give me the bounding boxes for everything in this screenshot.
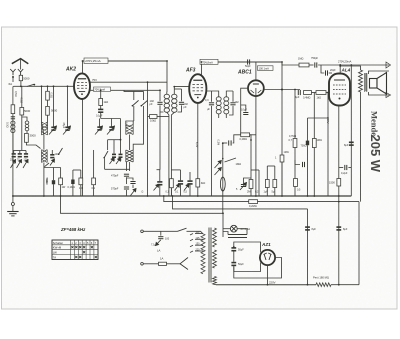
trimmer arrow t3 [116, 158, 121, 164]
band switch arrow b [17, 160, 22, 169]
speaker [370, 73, 387, 95]
v281 from top [281, 62, 283, 196]
cap det var [241, 185, 246, 187]
wire CV2 feed [67, 86, 69, 127]
r01f bot [72, 184, 74, 196]
tube AZ1 [260, 250, 275, 265]
variable tuning cap CV2 [65, 127, 69, 131]
resistor 1M right [312, 139, 316, 148]
mains bottom wire [143, 263, 158, 265]
anode supply wire 270V [83, 60, 168, 62]
resistor 150 [79, 178, 83, 185]
tap stub 110 [190, 234, 193, 236]
IF2 secondary coil [224, 97, 229, 114]
rail L1 [61, 196, 224, 213]
AF3 anode wire [202, 61, 283, 63]
table X row4 b [79, 256, 81, 258]
volume pot body [222, 150, 224, 214]
az1 left bottom [234, 263, 261, 272]
AK2 cathode down [82, 99, 84, 196]
wire mid v1 [133, 91, 135, 100]
r1mdet bot [266, 188, 268, 197]
power transformer secondary fil [213, 277, 217, 285]
chain mid [309, 64, 314, 66]
chain drop [327, 93, 329, 197]
heater bar left [223, 232, 228, 235]
switch S2a [132, 100, 138, 106]
coupling coil top [22, 117, 27, 121]
resistor 1k AK2 [99, 99, 103, 106]
IF2 capa leads [211, 91, 213, 102]
resistor 1M agc [280, 155, 284, 162]
mixer top leads [126, 121, 134, 125]
IF2 capb bot [229, 106, 233, 115]
mixer net drop b [113, 140, 115, 154]
v351 long [350, 65, 352, 196]
mixer net wire [108, 139, 121, 141]
cluster feed wire [44, 167, 61, 169]
avc wire [223, 142, 227, 144]
resistor 2MOhm [249, 180, 253, 189]
terminal 6A plug Y [10, 69, 15, 75]
capacitor 8uF a [305, 226, 310, 230]
trimmer cap 30 [112, 154, 116, 158]
IF1 sec top lead [173, 92, 175, 94]
capacitor 140 band [50, 154, 54, 158]
caf32 top jog [171, 169, 180, 171]
capacitor 120pF band [24, 153, 28, 157]
junction 340 [339, 64, 341, 66]
switch S1 contact dot [33, 84, 35, 86]
table X row4 a [75, 256, 77, 258]
AF3 anode up [201, 62, 203, 75]
r2m leads [250, 140, 252, 180]
ground lead [12, 206, 14, 212]
IF1 tuning cap a [157, 102, 162, 104]
AK2 75V wire [90, 81, 167, 83]
mixer coil upper winding [126, 125, 133, 135]
IF2 pri bottom [218, 114, 220, 118]
grid bus left corner [13, 86, 14, 121]
r07 leads [294, 90, 296, 139]
drop 307 8uF [307, 209, 309, 285]
ABC1 grid left wire [241, 88, 248, 92]
pot dot [222, 158, 224, 160]
switch S2b dot [141, 105, 143, 107]
tap 150 [195, 244, 203, 246]
tap 125 [195, 238, 203, 240]
trimmer cap 40 [119, 154, 123, 158]
IF2 sec bottom [225, 114, 227, 118]
var cap CV3b feed [111, 119, 113, 127]
IF1 pri top lead [166, 92, 168, 94]
IF1 pri bottom [167, 112, 169, 196]
otp top [340, 66, 360, 70]
r1k to cap [100, 106, 102, 110]
r150 bot [80, 185, 82, 196]
r50k bot [53, 184, 55, 196]
cap to res link [233, 135, 241, 143]
r01m leads [93, 150, 95, 178]
net drop to trimmers [120, 119, 122, 140]
ground symbol [7, 212, 18, 216]
det res right [250, 135, 251, 140]
boxed label 270V 25mA [84, 58, 108, 63]
cap470 to pad [126, 177, 128, 184]
resistor Perue 180 [316, 283, 331, 287]
mains top wire2 [187, 231, 204, 234]
mains switch [178, 228, 187, 231]
caf32 [180, 170, 182, 181]
capacitor 4uF coupling [298, 90, 300, 95]
junction dot 351 [350, 64, 352, 66]
volume pot ellipse [220, 177, 225, 191]
chain to grid [326, 92, 330, 94]
chain drop branch [308, 117, 329, 119]
band cap leads [13, 151, 15, 154]
band cap leads b [19, 151, 21, 154]
switch S3 dot [103, 157, 105, 159]
caf3 bot [159, 185, 161, 196]
IF1 cap a bot [160, 105, 164, 112]
rdet2 top [251, 169, 259, 171]
IF1 sec top to AF3 grid [174, 87, 189, 92]
capacitor 8uF c [349, 142, 354, 146]
band table frame [52, 240, 98, 260]
mixer caps bottom [113, 158, 115, 162]
junction dot 281 [281, 89, 283, 91]
table X row2 col 80.2 [79, 246, 81, 248]
band caps tee [21, 144, 23, 151]
resistor 3000 osc [25, 134, 29, 143]
mains cap lead [160, 231, 162, 235]
tap stub 125 [190, 239, 193, 241]
left column v1 cont [21, 115, 23, 144]
resistor 0,2MOhm top [241, 133, 250, 137]
IF2 cap a [209, 103, 214, 105]
az1 caps rail [233, 252, 235, 262]
caf33 [189, 172, 191, 180]
switch S1 on grid bus [27, 84, 35, 86]
coupling coil bottom [26, 131, 28, 133]
variable tuning cap CV1 [51, 127, 55, 131]
antenna A [12, 59, 29, 64]
c20 to grid [329, 72, 332, 74]
band table col lines [70, 240, 72, 260]
resistor 0,1M b [92, 178, 96, 185]
output transformer primary [359, 70, 363, 92]
terminal 6A dot [12, 76, 14, 78]
rif1 bot [170, 188, 172, 196]
mains cap [158, 237, 163, 239]
capacitor left col [11, 117, 15, 119]
capacitor 8uF b [336, 226, 341, 230]
terminal arrow right mid [386, 93, 391, 98]
band switch arrow d [50, 159, 55, 166]
resistor 1kOhm [316, 91, 326, 95]
variable tuning cap CV1 arrow [49, 126, 57, 135]
az1 left top [234, 242, 261, 253]
osc res to coil [47, 115, 49, 122]
grid bus left [14, 85, 74, 87]
band switch arrow c [23, 160, 28, 169]
r700 bot [307, 145, 309, 196]
capacitor 0,2uF cath [345, 165, 347, 170]
tap stub 220 [190, 251, 193, 253]
IF1 cap a leads [159, 90, 161, 101]
capacitor 470pF [124, 174, 129, 176]
mixer sw bottom [104, 159, 106, 170]
resistor 4MOhm [304, 91, 312, 95]
det cluster link [267, 165, 275, 167]
osc link mid [43, 135, 45, 150]
mixer net drop c [120, 140, 122, 154]
r1k leads [100, 90, 102, 98]
osc coil bottom [43, 163, 45, 197]
mixer coil lower winding [126, 150, 133, 162]
AL4 anode up [339, 65, 341, 74]
volume pot wiper [215, 161, 222, 169]
IF1 tuning cap b [179, 102, 184, 104]
ground drop [12, 121, 14, 203]
c20 leadb [321, 65, 324, 73]
wire mid v2 cont [143, 106, 145, 121]
tube ABC1 [248, 80, 264, 96]
capacitor cath af3 [157, 181, 162, 185]
capacitor 70pF band [18, 153, 22, 157]
IF2 capa bot [211, 106, 213, 196]
resistor det3 [273, 180, 277, 188]
res10k left lead [148, 116, 150, 118]
rdet3 leads [274, 166, 276, 180]
chain wire [312, 92, 317, 94]
IF2 cap b [230, 103, 235, 105]
resistor 10k IF [150, 115, 158, 119]
output transformer core [364, 73, 366, 92]
mixer net bottom [105, 168, 130, 170]
trimmer arrow t2 [110, 158, 115, 164]
capacitor pad [130, 182, 135, 184]
r50k leads [53, 168, 55, 181]
switch feed from 70V wire [124, 90, 144, 91]
terminal arrow right top [386, 62, 391, 68]
resistor 0,1M filled [71, 180, 74, 185]
L3 bottom b [126, 162, 128, 171]
plate feed drop IF1 [166, 61, 168, 92]
ctone lead [295, 160, 300, 165]
variable tuning cap CV2 arrow [63, 126, 71, 135]
voltage selector wedge [180, 258, 188, 270]
junction dots various [12, 60, 341, 286]
resistor 5000 osc [46, 106, 50, 115]
caf3 jog [157, 169, 161, 171]
boxed label 70V 5mA [94, 87, 111, 91]
drop 359 [358, 202, 360, 285]
left column v1 [21, 86, 23, 107]
junction chain [327, 92, 329, 94]
table X row2 last [91, 246, 93, 248]
caf3 leads [159, 112, 161, 170]
cap ABC1 lead [241, 105, 246, 111]
resistor 1500 [337, 179, 341, 187]
bus 220V right [331, 284, 359, 286]
capacitor 570pF [124, 187, 129, 189]
osc res link [47, 100, 49, 106]
capacitor 750pF [315, 62, 317, 67]
cap140 lead [51, 150, 53, 154]
ground terminal circle [11, 203, 14, 206]
resistor right4 [294, 179, 298, 187]
band cap leads c [25, 151, 27, 154]
table X row2 col 72.4 [71, 246, 73, 248]
c02 leads [339, 167, 343, 169]
mains top wire [143, 230, 177, 232]
ABC1 plate wire right [264, 89, 300, 91]
fuse 1A [159, 262, 167, 265]
dial lamp [230, 225, 237, 232]
capacitor det filled [229, 140, 231, 145]
top chain wire [282, 62, 299, 65]
band caps top rail [13, 150, 26, 152]
fil bottom lead [215, 284, 217, 286]
antenna res to bus [20, 81, 22, 87]
res3000 bottom lead [26, 142, 40, 148]
IF1 secondary coil [172, 94, 177, 112]
r01f leads [72, 170, 74, 180]
AL4 cathode down [338, 106, 340, 286]
variable cap CV3b [109, 126, 113, 130]
mains terminal bottom [141, 263, 144, 266]
mixer right branch 2 [133, 121, 143, 150]
L3 bottom [129, 162, 131, 171]
switch S2a dot [132, 105, 134, 107]
tube AF3 [189, 74, 206, 103]
IF1 sec bottom [171, 112, 174, 196]
switch S3 [104, 151, 108, 158]
AK2 anode up [82, 61, 84, 73]
heater rail drop [222, 213, 224, 237]
cap 0,1 AK2 [98, 109, 103, 113]
r1magc bot [281, 162, 283, 196]
tube AL4 [329, 74, 350, 106]
power transformer secondary HV1 [213, 228, 217, 247]
mains bottom wire2 [167, 263, 181, 265]
resistor left col [11, 105, 15, 114]
IF2 sec top [226, 91, 233, 97]
rail L2 [164, 196, 359, 202]
r07 bot [294, 148, 296, 197]
boxed label 100 1mA [258, 66, 274, 71]
osc coil upper winding [42, 122, 48, 135]
antenna coil La [11, 121, 15, 133]
r700 leads [307, 118, 309, 141]
avc pot top [222, 143, 224, 150]
table X row4 c [95, 256, 97, 258]
padder arrow [131, 189, 137, 196]
IF2 capb leads [232, 91, 234, 102]
var cap CV3a feed [99, 119, 101, 127]
resistor 50k filled [52, 180, 55, 184]
IF1 cap b bot [178, 105, 182, 112]
main ground bus [13, 195, 351, 197]
ak2 cath feed [73, 169, 81, 171]
tap 110 [195, 233, 203, 235]
rdet2 drop [258, 170, 260, 196]
variable cap CV3b arrow [107, 126, 115, 135]
rdet3 bot [274, 188, 276, 197]
r1mr leads [313, 93, 315, 139]
table X row2 col 84.1 [83, 246, 85, 248]
wire mid v1 cont [133, 106, 135, 121]
capacitor 250pF band [12, 153, 16, 157]
det res lead [240, 92, 242, 135]
6A lead [12, 78, 14, 82]
v147 down [147, 82, 149, 196]
capacitor 50pF top [248, 59, 250, 64]
r01m bot [93, 185, 95, 196]
pad bottom [132, 185, 134, 188]
power transformer secondary HV2 [213, 250, 217, 268]
capacitor af3 3 [187, 180, 192, 184]
az1 right [234, 258, 282, 279]
res02 right lead [250, 134, 256, 136]
resistor 1MOhm det [265, 180, 269, 188]
pot wiper line [225, 158, 237, 162]
wire CV1 feed [53, 86, 55, 127]
r1mdet leads [266, 166, 268, 180]
mixer top lead r [132, 121, 134, 125]
switch S osc [59, 148, 63, 155]
table X row2 col 76.3 [75, 246, 77, 248]
r60 leads [60, 168, 62, 179]
power transformer primary [201, 234, 205, 274]
caf33b [189, 185, 191, 196]
antenna lead wire [20, 59, 22, 70]
wire osc coil feed L [41, 86, 43, 122]
net wire y119 [101, 118, 121, 120]
AK2 screen wire 70V [90, 89, 160, 91]
osc bottom switch [45, 163, 50, 167]
switch S2b [141, 100, 148, 106]
wire ak2 chain to net [100, 113, 102, 119]
switch S osc dot [58, 153, 60, 155]
capdet top [244, 178, 252, 183]
res10k lead [157, 116, 169, 118]
cap tone [303, 162, 305, 167]
IF2 pri top [207, 91, 219, 97]
tap 220 [195, 250, 203, 252]
resistor 5000 antenna [19, 75, 22, 80]
rail L3 [173, 196, 308, 209]
band switch arrow a [11, 160, 16, 169]
c02 right [348, 167, 351, 169]
mains cap arrow [156, 240, 161, 246]
resistor af3 cath [196, 179, 200, 187]
r150 leads [80, 170, 82, 178]
power transformer core [208, 228, 210, 283]
resistor 0,2M rail [249, 200, 258, 204]
coupling coil Lc [25, 121, 29, 131]
capacitor af3 2 [178, 180, 183, 184]
capacitor 50uF a [231, 247, 236, 251]
tap stub 150 [190, 245, 193, 247]
IF1 cap b top [174, 88, 181, 90]
r2m bot [250, 189, 252, 197]
heater winding bars [228, 234, 247, 236]
mixer net drop a [107, 140, 109, 150]
r60 bot [60, 185, 62, 196]
resistor if1 return [170, 179, 174, 188]
